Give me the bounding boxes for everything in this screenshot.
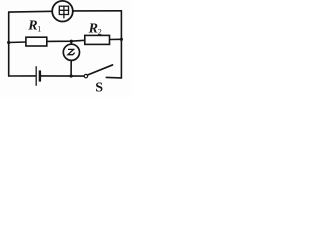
wire middle row left segment (9, 41, 26, 44)
meter U2 (yi) (63, 44, 79, 60)
node dot right (120, 38, 123, 41)
node dot center (70, 40, 73, 43)
node dot left (7, 41, 10, 44)
wire right vertical (120, 11, 122, 78)
svg-text:1: 1 (37, 25, 41, 34)
wire top left segment (9, 10, 53, 13)
wire middle row center segment (47, 40, 85, 41)
svg-text:2: 2 (98, 28, 102, 37)
wire left vertical (8, 12, 10, 76)
resistor R1 (26, 37, 47, 46)
switch S pivot (84, 74, 87, 77)
wire middle row right segment (110, 38, 122, 40)
svg-text:S: S (95, 80, 103, 95)
wire top right segment (73, 10, 122, 12)
meter U1 (jia) (52, 1, 73, 22)
battery long plate (35, 66, 37, 86)
node dot bottom (70, 74, 73, 77)
switch S blade (88, 65, 113, 75)
wire bottom left segment (9, 75, 36, 77)
svg-text:R: R (88, 22, 98, 37)
resistor R2 (85, 35, 110, 44)
wire bottom middle segment (41, 75, 84, 77)
wire branch junction to meter B (70, 41, 72, 44)
svg-text:R: R (27, 19, 37, 34)
wire bottom right segment (106, 76, 121, 79)
battery short plate (39, 70, 41, 81)
wire meter B to bottom (70, 60, 72, 76)
